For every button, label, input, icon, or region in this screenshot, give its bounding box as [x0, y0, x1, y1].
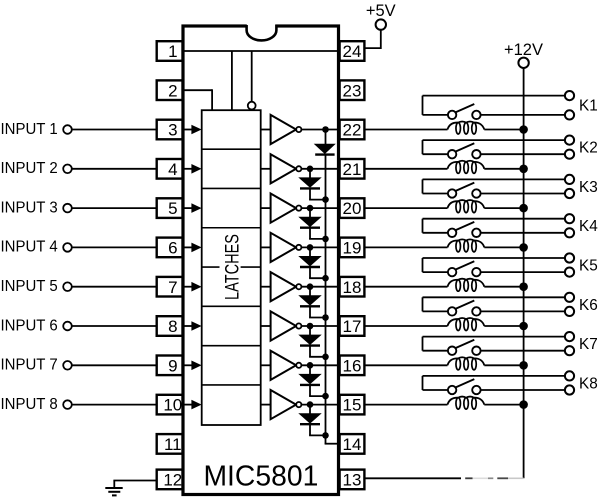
wire relay K1 contact out [481, 114, 565, 116]
pin 11 [157, 434, 183, 454]
wire INPUT 3 to pin 5 [72, 207, 157, 209]
wire relay K5 common rail [423, 257, 566, 259]
strobe bubble (active-low) on latch block [248, 102, 256, 110]
svg-text:INPUT 6: INPUT 6 [1, 317, 58, 334]
relay K2 switch [423, 140, 481, 158]
pin 20 [340, 198, 365, 218]
wire latch row 8 to inverter [261, 404, 271, 406]
pin 5 [157, 198, 183, 218]
relay K5 switch [423, 258, 481, 276]
input terminal INPUT 3 [1, 199, 72, 216]
inverter buffer U1b [271, 154, 302, 183]
svg-text:K1: K1 [579, 98, 598, 115]
svg-text:6: 6 [168, 239, 177, 258]
wire INPUT 6 to pin 8 [72, 325, 157, 327]
wire INPUT 8 to pin 10 [72, 404, 157, 406]
terminal K2 upper [565, 136, 574, 145]
inverter buffer U1g [271, 351, 302, 380]
node output 7 junction [307, 362, 314, 369]
relay K4 coil [448, 239, 485, 252]
svg-text:INPUT 2: INPUT 2 [1, 160, 58, 177]
junction dot relay K3 on +12V rail [519, 204, 528, 213]
diode D7 [300, 365, 321, 385]
relay K3 switch [423, 179, 481, 197]
wire INPUT 4 to pin 6 [72, 246, 157, 248]
relay K4 switch [423, 219, 481, 237]
inverter buffer U1d [271, 233, 302, 262]
wire inverter 2 output to pin 21 [301, 168, 339, 170]
wire pin 20 to relay K3 coil [364, 207, 447, 209]
pin 19 [340, 238, 365, 258]
node output 2 junction [307, 166, 314, 173]
wire INPUT 2 to pin 4 [72, 168, 157, 170]
svg-text:15: 15 [343, 396, 362, 415]
wire relay K8 common rail [423, 375, 566, 377]
relay K7 switch [423, 337, 481, 355]
wire pin 19 to relay K4 coil [364, 246, 447, 248]
wire latch row 4 to inverter [261, 246, 271, 248]
terminal K8 lower [565, 385, 574, 394]
wire pin 4 into latch with arrow [183, 164, 202, 174]
input terminal INPUT 1 [1, 121, 72, 138]
wire diode D2 cathode to clamp bus [309, 188, 325, 199]
svg-text:K2: K2 [579, 140, 598, 157]
wire inverter 4 output to pin 19 [301, 246, 339, 248]
svg-text:11: 11 [164, 435, 182, 454]
wire INPUT 7 to pin 9 [72, 364, 157, 366]
svg-text:K8: K8 [579, 375, 598, 392]
diode D3 [300, 208, 321, 228]
wire relay K5 contact out [481, 271, 565, 273]
terminal K6 lower [565, 307, 574, 316]
pin 2 [157, 80, 183, 100]
node clamp bus junction row 2 [322, 196, 329, 203]
terminal K3 lower [565, 189, 574, 198]
label K6 [579, 297, 598, 314]
node output 4 junction [307, 244, 314, 251]
wire pin 15 to relay K8 coil [364, 404, 447, 406]
svg-text:23: 23 [343, 81, 362, 100]
pin 18 [340, 277, 365, 297]
wire relay K3 common rail [423, 178, 566, 180]
svg-text:10: 10 [163, 396, 182, 415]
junction dot relay K4 on +12V rail [519, 243, 528, 252]
inverter buffer U1f [271, 311, 302, 340]
wire pin 8 into latch with arrow [183, 321, 202, 331]
terminal K4 upper [565, 214, 574, 223]
inverter buffer U1h [271, 390, 302, 419]
svg-text:18: 18 [343, 278, 362, 297]
wire relay K2 common rail [423, 139, 566, 141]
pin 21 [340, 159, 365, 179]
wire pin 3 into latch with arrow [183, 125, 202, 135]
wire relay K7 common rail [423, 336, 566, 338]
label K2 [579, 140, 598, 157]
terminal K4 lower [565, 228, 574, 237]
wire relay K5 coil to +12V rail [484, 286, 523, 288]
node output 8 junction [307, 401, 314, 408]
svg-text:INPUT 5: INPUT 5 [1, 278, 58, 295]
junction dot relay K7 on +12V rail [519, 361, 528, 370]
label K4 [579, 218, 598, 235]
relay K5 coil [448, 279, 485, 292]
pin 15 [340, 395, 365, 415]
wire inverter 7 output to pin 16 [301, 364, 339, 366]
svg-text:13: 13 [343, 471, 362, 490]
svg-text:MIC5801: MIC5801 [203, 460, 318, 492]
wire relay K8 contact out [481, 389, 565, 391]
pin 24 [340, 41, 365, 61]
svg-text:+12V: +12V [504, 41, 543, 59]
wire relay K1 coil to +12V rail [484, 129, 523, 131]
svg-text:7: 7 [168, 278, 177, 297]
wire pin 22 to relay K1 coil [364, 129, 447, 131]
diode D2 [300, 169, 321, 189]
input terminal INPUT 6 [1, 317, 72, 334]
pin 12 [157, 470, 183, 490]
terminal K1 lower [565, 110, 574, 119]
wire +5V to pin 24 [365, 30, 381, 49]
node output 1 junction [322, 126, 329, 133]
relay K3 coil [448, 200, 485, 213]
wire inverter 8 output to pin 15 [301, 404, 339, 406]
wire latch row 5 to inverter [261, 286, 271, 288]
svg-text:21: 21 [343, 160, 362, 179]
svg-text:K7: K7 [579, 336, 598, 353]
relay K6 coil [448, 318, 485, 331]
wire VDD rail drop to latch block [231, 51, 233, 110]
pin 10 [157, 395, 183, 415]
svg-text:8: 8 [168, 317, 177, 336]
terminal K6 upper [565, 293, 574, 302]
terminal K1 upper [565, 91, 574, 100]
svg-text:+5V: +5V [366, 2, 396, 20]
wire diode D8 cathode to clamp bus [309, 424, 325, 435]
wire latch row 6 to inverter [261, 325, 271, 327]
wire relay K4 coil to +12V rail [484, 246, 523, 248]
wire relay K3 coil to +12V rail [484, 207, 523, 209]
terminal K5 upper [565, 253, 574, 262]
node clamp bus junction row 6 [322, 354, 329, 361]
relay K2 coil [448, 161, 485, 174]
label K8 [579, 375, 598, 392]
terminal K2 lower [565, 150, 574, 159]
relay K1 switch [423, 96, 481, 120]
IC orientation notch [247, 24, 277, 40]
inverter buffer U1c [271, 194, 302, 223]
inverter buffer U1e [271, 272, 302, 301]
pin 17 [340, 316, 365, 336]
wire pin 5 into latch with arrow [183, 203, 202, 213]
terminal K7 upper [565, 332, 574, 341]
svg-text:3: 3 [168, 121, 177, 140]
wire relay K6 contact out [481, 310, 565, 312]
wire latch row 2 to inverter [261, 168, 271, 170]
wire relay K3 contact out [481, 193, 565, 195]
wire pin 9 into latch with arrow [183, 361, 202, 371]
pin 22 [340, 120, 365, 140]
node clamp bus junction row 8 [322, 432, 329, 439]
svg-text:INPUT 4: INPUT 4 [1, 239, 58, 256]
pin 13 [340, 470, 365, 490]
wire pin 10 into latch with arrow [183, 400, 202, 410]
node clamp bus junction row 4 [322, 275, 329, 282]
wire relay K6 common rail [423, 296, 566, 298]
svg-text:1: 1 [168, 42, 177, 61]
pin 7 [157, 277, 183, 297]
junction dot relay K6 on +12V rail [519, 322, 528, 331]
wire relay K1 common rail [423, 95, 566, 97]
diode D4 [300, 247, 321, 267]
latch block LATCHES [202, 110, 261, 425]
+12V rail (vertical) [523, 68, 525, 478]
wire pin 16 to relay K7 coil [364, 364, 447, 366]
+5V supply terminal [366, 2, 396, 30]
label K7 [579, 336, 598, 353]
svg-text:INPUT 3: INPUT 3 [1, 199, 58, 216]
pin 6 [157, 238, 183, 258]
terminal K5 lower [565, 268, 574, 277]
svg-text:INPUT 1: INPUT 1 [1, 121, 58, 138]
input terminal INPUT 7 [1, 357, 72, 374]
wire VDD rail drop to strobe bubble [251, 51, 253, 102]
diode D5 [300, 287, 321, 307]
svg-text:INPUT 8: INPUT 8 [1, 396, 58, 413]
wire relay K2 contact out [481, 153, 565, 155]
node clamp bus junction row 7 [322, 393, 329, 400]
node output 6 junction [307, 323, 314, 330]
input terminal INPUT 4 [1, 239, 72, 256]
svg-text:K4: K4 [579, 218, 598, 235]
relay K8 switch [423, 376, 481, 394]
terminal K8 upper [565, 371, 574, 380]
wire latch row 3 to inverter [261, 207, 271, 209]
svg-text:4: 4 [168, 160, 177, 179]
terminal K3 upper [565, 175, 574, 184]
svg-text:16: 16 [343, 356, 362, 375]
wire pin 21 to relay K2 coil [364, 168, 447, 170]
terminal K7 lower [565, 346, 574, 355]
wire pin 6 into latch with arrow [183, 243, 202, 253]
svg-text:19: 19 [343, 239, 362, 258]
pin 14 [340, 434, 365, 454]
svg-text:20: 20 [343, 199, 362, 218]
pin 8 [157, 316, 183, 336]
pin 9 [157, 356, 183, 376]
diode D8 [300, 405, 321, 425]
relay K6 switch [423, 297, 481, 315]
pin 23 [340, 80, 365, 100]
wire INPUT 1 to pin 3 [72, 129, 157, 131]
svg-text:INPUT 7: INPUT 7 [1, 357, 58, 374]
input terminal INPUT 2 [1, 160, 72, 177]
junction dot relay K5 on +12V rail [519, 282, 528, 291]
junction dot relay K1 on +12V rail [519, 125, 528, 134]
inverter buffer U1a [271, 115, 302, 144]
svg-text:22: 22 [343, 121, 362, 140]
svg-text:14: 14 [343, 435, 362, 454]
svg-text:5: 5 [168, 199, 177, 218]
label MIC5801 [203, 460, 318, 492]
wire pin 7 into latch with arrow [183, 282, 202, 292]
wire diode D4 cathode to clamp bus [309, 267, 325, 278]
svg-text:K5: K5 [579, 257, 598, 274]
pin 4 [157, 159, 183, 179]
wire relay K4 contact out [481, 232, 565, 234]
wire inverter 5 output to pin 18 [301, 286, 339, 288]
wire diode D7 cathode to clamp bus [309, 385, 325, 396]
junction dot relay K2 on +12V rail [519, 165, 528, 174]
wire latch row 7 to inverter [261, 364, 271, 366]
wire clamp bus to pin 14 [325, 443, 340, 445]
wire inverter 1 output to pin 22 [301, 129, 339, 131]
label K3 [579, 179, 598, 196]
wire relay K7 coil to +12V rail [484, 364, 523, 366]
wire relay K4 common rail [423, 218, 566, 220]
clamp diode common-cathode bus [325, 155, 327, 444]
node output 3 junction [307, 205, 314, 212]
wire diode D6 cathode to clamp bus [309, 346, 325, 357]
junction dot relay K8 on +12V rail [519, 400, 528, 409]
svg-text:12: 12 [163, 471, 182, 490]
wire pin 17 to relay K6 coil [364, 325, 447, 327]
label K5 [579, 257, 598, 274]
diode D6 [300, 326, 321, 346]
pin 1 [157, 41, 183, 61]
wire latch row 1 to inverter [261, 129, 271, 131]
diode D1 [315, 130, 335, 155]
svg-text:17: 17 [343, 317, 362, 336]
svg-text:K6: K6 [579, 297, 598, 314]
relay K7 coil [448, 357, 485, 370]
+12V supply terminal [504, 41, 543, 68]
wire diode D3 cathode to clamp bus [309, 228, 325, 239]
input terminal INPUT 8 [1, 396, 72, 413]
wire diode D5 cathode to clamp bus [309, 306, 325, 317]
svg-text:LATCHES: LATCHES [220, 234, 243, 300]
label K1 [579, 98, 598, 115]
node clamp bus junction row 5 [322, 314, 329, 321]
wire inverter 6 output to pin 17 [301, 325, 339, 327]
svg-text:24: 24 [343, 42, 362, 61]
wire pin 18 to relay K5 coil [364, 286, 447, 288]
svg-text:2: 2 [168, 81, 177, 100]
svg-text:K3: K3 [579, 179, 598, 196]
wire relay K6 coil to +12V rail [484, 325, 523, 327]
wire relay K7 contact out [481, 350, 565, 352]
wire pin 13 to +12V rail [364, 477, 523, 479]
ground [105, 488, 122, 495]
relay K1 coil [448, 121, 485, 134]
pin 16 [340, 356, 365, 376]
wire INPUT 5 to pin 7 [72, 286, 157, 288]
pin 3 [157, 120, 183, 140]
wire relay K8 coil to +12V rail [484, 404, 523, 406]
label LATCHES [220, 234, 243, 300]
node clamp bus junction row 3 [322, 236, 329, 243]
svg-text:9: 9 [168, 356, 177, 375]
node output 5 junction [307, 283, 314, 290]
wire inverter 3 output to pin 20 [301, 207, 339, 209]
wire pin 1 to pin 24 (VDD rail) [183, 50, 340, 52]
relay K8 coil [448, 397, 485, 410]
wire pin 2 to latch block [183, 89, 212, 110]
wire pin 12 to ground [113, 481, 156, 489]
IC U1 MIC5801 package body [183, 26, 339, 495]
wire relay K2 coil to +12V rail [484, 168, 523, 170]
input terminal INPUT 5 [1, 278, 72, 295]
